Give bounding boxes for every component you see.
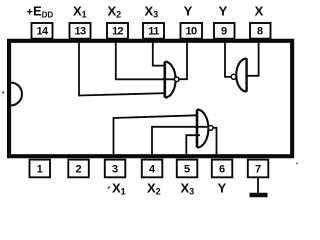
svg-text:5: 5 bbox=[184, 163, 190, 175]
svg-text:8: 8 bbox=[257, 26, 263, 38]
pin 8 box bbox=[250, 23, 271, 39]
svg-text:Y: Y bbox=[219, 3, 228, 18]
pin 5 box bbox=[177, 160, 198, 178]
svg-text:9: 9 bbox=[221, 26, 227, 38]
svg-text:X3: X3 bbox=[181, 181, 195, 197]
pin 10 box bbox=[181, 23, 203, 39]
output bubble U1b bbox=[231, 74, 236, 79]
notch bbox=[11, 83, 23, 106]
wire pin 5 to U1c input c bbox=[186, 135, 200, 156]
wire pin 12 to U1a input b bbox=[116, 42, 174, 79]
pin 9 box bbox=[214, 23, 235, 39]
NOR gate U1a (top) bbox=[165, 62, 176, 98]
output bubble U1a bbox=[174, 77, 179, 82]
output bubble U1c bbox=[208, 126, 213, 131]
speck right bbox=[296, 163, 298, 165]
svg-text:6: 6 bbox=[219, 163, 225, 175]
pin 6 box bbox=[212, 160, 233, 178]
pin 3 box bbox=[105, 160, 126, 178]
svg-text:14: 14 bbox=[36, 26, 49, 38]
svg-text:X1: X1 bbox=[73, 3, 87, 19]
wire pin 9 to U1b output bbox=[225, 42, 231, 77]
svg-text:X1: X1 bbox=[112, 181, 126, 197]
NOR gate U1c (bottom) bbox=[197, 109, 208, 147]
svg-text:2: 2 bbox=[75, 163, 81, 175]
speck bottom bbox=[108, 187, 111, 189]
svg-text:7: 7 bbox=[255, 163, 261, 175]
svg-text:10: 10 bbox=[185, 26, 197, 38]
svg-text:Y: Y bbox=[184, 3, 193, 18]
pin 14 box bbox=[32, 23, 53, 39]
pin 4 box bbox=[142, 160, 163, 178]
svg-text:1: 1 bbox=[37, 163, 43, 175]
svg-text:3: 3 bbox=[112, 163, 118, 175]
pin 1 box bbox=[30, 160, 51, 178]
wire pin 4 to U1c input b bbox=[152, 127, 208, 156]
ground bbox=[250, 177, 268, 195]
IC body U1 bbox=[9, 41, 292, 156]
wire U1c output to pin 6 bbox=[213, 128, 217, 156]
pin 12 box bbox=[107, 23, 128, 39]
svg-text:11: 11 bbox=[148, 26, 159, 38]
svg-text:13: 13 bbox=[74, 26, 86, 38]
svg-text:12: 12 bbox=[112, 26, 124, 38]
inverter U1b (left-facing) bbox=[236, 58, 246, 91]
pin 7 box bbox=[248, 160, 268, 178]
svg-text:X3: X3 bbox=[145, 3, 159, 19]
wire pin 3 to U1c input a bbox=[114, 115, 198, 156]
wire U1a output to pin 10 bbox=[179, 42, 187, 79]
svg-text:X: X bbox=[255, 3, 264, 18]
svg-text:Y: Y bbox=[218, 181, 227, 196]
svg-text:+EDD: +EDD bbox=[27, 3, 54, 19]
svg-text:X2: X2 bbox=[108, 3, 122, 19]
wire pin 8 to U1b input bbox=[247, 42, 259, 76]
pin 2 box bbox=[68, 160, 89, 178]
svg-text:4: 4 bbox=[149, 163, 156, 175]
pin 13 box bbox=[70, 23, 91, 39]
wire pin 11 to U1a input a bbox=[153, 42, 164, 66]
svg-text:X2: X2 bbox=[147, 181, 161, 197]
wire pin 13 to U1a input c bbox=[79, 42, 164, 96]
speck left bbox=[2, 92, 4, 94]
pin 11 box bbox=[143, 23, 164, 39]
